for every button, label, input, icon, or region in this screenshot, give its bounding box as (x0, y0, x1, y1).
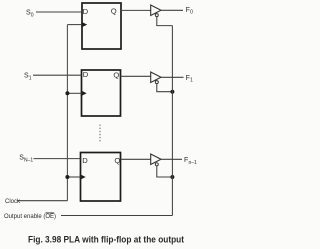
svg-text:Q: Q (113, 70, 119, 79)
svg-text:0: 0 (31, 12, 34, 18)
wire Q of U1 to buffer B1 (121, 9, 151, 11)
svg-text:Output enable (OE): Output enable (OE) (4, 214, 56, 220)
clock input arrow (U3) (80, 174, 86, 180)
wire clock branch to U3 (67, 176, 80, 178)
wire enable hook B3 (down then right to OE bus) (157, 166, 173, 177)
wire enable hook B1 (down then right to OE bus) (157, 17, 173, 26)
junction dot B3 enable / OE bus (170, 175, 174, 179)
svg-text:Q: Q (114, 156, 120, 165)
svg-text:D: D (83, 7, 89, 16)
ellipsis dashed line (continuation between U2 and U3) (99, 125, 101, 143)
svg-text:n–1: n–1 (189, 160, 198, 166)
overline over OE (45, 212, 54, 214)
svg-text:Fig. 3.98 PLA with flip-flop a: Fig. 3.98 PLA with flip-flop at the outp… (28, 234, 184, 244)
enable bubble B3 (155, 163, 158, 166)
flip-flop U3 (D flip-flop, bottom) (81, 153, 121, 202)
wire SN-1 to D of U3 (34, 158, 81, 160)
clock input arrow (U2) (81, 90, 87, 96)
svg-text:Clock: Clock (5, 199, 21, 205)
svg-text:1: 1 (190, 78, 193, 84)
svg-text:N–1: N–1 (24, 157, 33, 163)
wire OE bus (vertical) (171, 26, 173, 216)
wire S0 to D of U1 (36, 11, 82, 13)
tri-state buffer B3 (151, 154, 161, 165)
wire enable hook B2 (down then right to OE bus) (157, 84, 173, 92)
svg-text:0: 0 (190, 10, 193, 16)
junction dot B2 enable / OE bus (170, 90, 174, 94)
wire buffer B3 output to Fn-1 (161, 158, 182, 160)
enable bubble B1 (155, 14, 158, 17)
tri-state buffer B1 (151, 5, 161, 16)
wire OE label to OE bus (61, 215, 172, 217)
wire Q of U3 to buffer B3 (121, 158, 151, 160)
wire S1 to D of U2 (33, 74, 82, 76)
wire Q of U2 to buffer B2 (121, 75, 151, 77)
wire clock bus (vertical) (66, 25, 68, 201)
enable bubble B2 (155, 81, 158, 84)
svg-text:D: D (82, 156, 88, 165)
wire buffer B2 output to F1 (161, 76, 184, 78)
wire clock branch to U2 (67, 92, 81, 94)
wire Clock label to clock bus (17, 200, 67, 202)
tri-state buffer B2 (151, 72, 161, 83)
clock input arrow (U1) (81, 22, 87, 28)
svg-text:Q: Q (111, 6, 117, 15)
svg-text:D: D (83, 70, 89, 79)
wire buffer B1 output to F0 (161, 9, 183, 11)
svg-text:1: 1 (29, 75, 32, 81)
wire clock branch to U1 (67, 24, 82, 26)
flip-flop U1 (D flip-flop, top) (82, 3, 121, 49)
flip-flop U2 (D flip-flop, middle) (82, 70, 121, 116)
junction dot clock/U2 (65, 91, 69, 95)
junction dot clock/U3 (65, 175, 69, 179)
